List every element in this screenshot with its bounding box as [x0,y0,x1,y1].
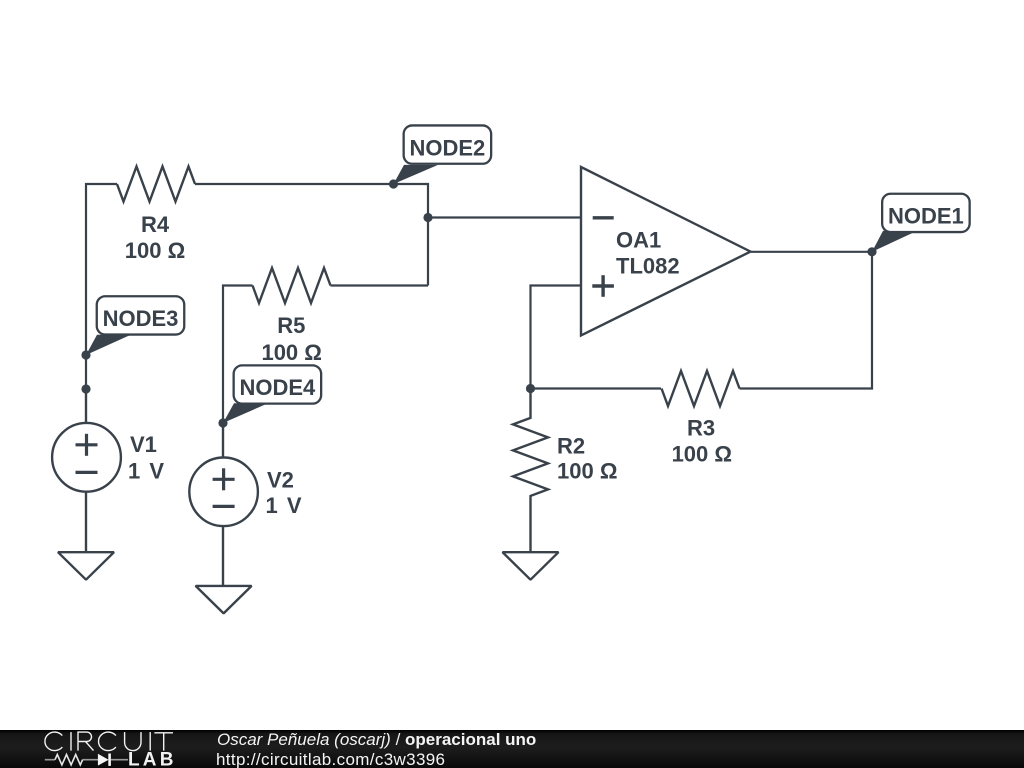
svg-text:1 V: 1 V [266,493,304,518]
op-amp OA1 minus pin symbol [593,216,614,219]
wire: R5 left lead down to NODE4 / V2 [223,286,253,424]
svg-text:V1: V1 [130,432,157,457]
node label NODE3 [86,296,184,355]
node dot NODE1 anchor [867,247,876,256]
svg-text:100 Ω: 100 Ω [557,459,617,484]
footer bar [0,730,1024,768]
node dot inverting junction [423,213,432,222]
node dot feedback junction [526,384,535,393]
wire: vertical from NODE2 corner down to R5 level [427,218,429,286]
svg-text:R3: R3 [687,416,715,441]
svg-text:R4: R4 [141,212,170,237]
logo letter T [154,733,173,751]
wire: R3 left lead to feedback junction [531,387,662,389]
svg-text:NODE2: NODE2 [410,135,486,160]
svg-text:TL082: TL082 [616,254,680,279]
node label NODE2 [394,125,492,184]
voltage source V1 [52,389,121,552]
CircuitLab logo [0,730,200,768]
node dot NODE2 anchor [389,179,398,188]
resistor R5 [253,268,331,303]
logo letter U [125,732,141,751]
svg-text:NODE1: NODE1 [888,204,964,229]
wire: top net from V1 up and right to NODE2 corner [86,184,428,389]
node label NODE4 [223,365,321,423]
resistor R3 [662,371,740,406]
node label NODE1 [872,194,970,252]
ground for V2 [196,586,252,614]
svg-text:R2: R2 [557,434,585,459]
wire: output net from op-amp to NODE1 and down [740,252,873,389]
voltage source V2 [189,423,258,586]
svg-text:V2: V2 [267,468,294,493]
node junction dots [81,179,876,427]
ground for V1 [58,552,114,580]
ground for R2 [503,552,559,580]
logo letter I2 [149,732,151,751]
logo letter R [78,732,94,751]
logo letter I [70,732,72,751]
svg-text:NODE4: NODE4 [240,375,317,400]
op-amp OA1 plus pin symbol [592,275,614,297]
svg-text:OA1: OA1 [616,228,661,253]
footer attribution text [217,731,536,748]
op-amp OA1 triangle [581,167,751,336]
svg-text:R5: R5 [277,313,305,338]
node dot NODE4 anchor / V2 terminal [218,418,227,427]
logo letter C [45,732,62,751]
node dot NODE3 anchor [81,350,90,359]
footer url text [216,751,445,768]
svg-text:100 Ω: 100 Ω [261,340,321,365]
svg-text:LAB: LAB [128,750,177,768]
svg-text:100 Ω: 100 Ω [672,442,732,467]
svg-text:1 V: 1 V [128,458,166,483]
logo resistor-diode [45,754,128,766]
node dot V1 top terminal [81,384,90,393]
svg-text:NODE3: NODE3 [103,306,179,331]
wire: non-inverting input net [531,286,582,389]
resistor R4 [117,167,195,202]
resistor R2 [513,389,548,553]
wire: inverting input net from corner junction to op-amp [428,216,581,218]
logo letter C2 [99,732,116,751]
wire: R5 right lead to vertical wire [331,284,429,286]
svg-text:100 Ω: 100 Ω [125,238,185,263]
labels [125,212,732,518]
